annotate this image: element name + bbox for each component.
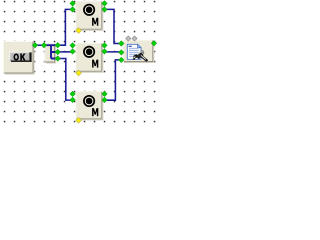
wire junction-to-M3 <box>58 59 73 101</box>
pin M2 bottom (yellow) <box>76 70 82 76</box>
pin M2 left upper (green) <box>70 43 75 48</box>
pin M1 left upper (green) <box>70 1 75 6</box>
pin M1 right lower (green) <box>102 7 107 12</box>
pin junction right 1 (green) <box>55 43 60 48</box>
wire junction-to-M1 <box>58 9 73 45</box>
pin M1 right upper (green) <box>102 1 107 6</box>
wire M3-to-icon <box>105 60 122 100</box>
wire junction-to-M2 <box>58 51 73 53</box>
pin M1 left lower (green) <box>70 7 75 12</box>
motor M2 <box>76 43 103 72</box>
wire OK-to-junction <box>35 44 44 46</box>
pin icon right (green) <box>151 41 156 46</box>
pin M3 left lower (green) <box>70 97 75 102</box>
pin icon top 1 (gray) <box>126 36 131 41</box>
pin M3 left upper (green) <box>70 91 75 96</box>
pin M3 right upper (green) <box>102 91 107 96</box>
junction distributor block <box>44 43 57 63</box>
wire M1-to-icon <box>105 9 122 43</box>
pin M2 right upper (green) <box>102 43 107 48</box>
pin M2 right lower (green) <box>102 49 107 54</box>
pin M3 bottom (yellow) <box>76 117 82 123</box>
pin junction left (green) <box>41 43 46 48</box>
icon block (document with tools) <box>124 40 154 63</box>
motor M3 <box>76 91 103 120</box>
pin icon left 3 (green) <box>119 57 124 62</box>
OK button block <box>3 41 34 74</box>
pin OK right (green) <box>32 43 37 48</box>
pin icon left 1 (green) <box>119 41 124 46</box>
wire M2-to-icon <box>105 51 122 53</box>
pin junction right 3 (green) <box>55 56 60 61</box>
motor M1 <box>76 1 103 30</box>
pin icon top 2 (gray) <box>132 36 137 41</box>
pin M1 bottom (yellow) <box>76 28 82 34</box>
pin junction right 2 (green) <box>55 49 60 54</box>
pin icon left 2 (green) <box>119 50 124 55</box>
pin M2 left lower (green) <box>70 49 75 54</box>
pin M3 right lower (green) <box>102 97 107 102</box>
